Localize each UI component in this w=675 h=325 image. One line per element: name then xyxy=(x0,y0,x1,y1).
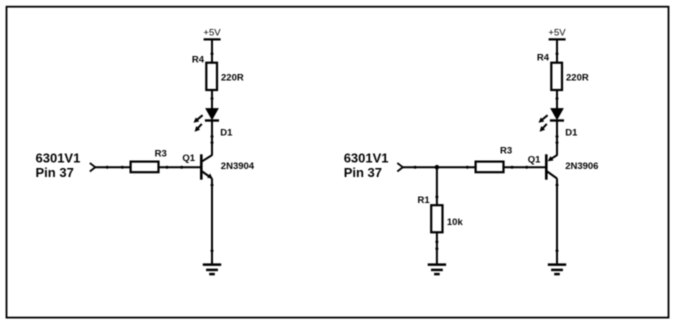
input pin chevron (right) xyxy=(397,163,403,172)
resistor R4 body (right) xyxy=(551,63,562,90)
svg-text:R1: R1 xyxy=(418,195,431,206)
wire R3 to Q1 base (left) xyxy=(159,166,201,168)
svg-text:+5V: +5V xyxy=(548,28,566,39)
LED D1 label (left) xyxy=(220,127,233,138)
power +5V label (left) xyxy=(203,28,221,39)
svg-text:R3: R3 xyxy=(500,146,512,157)
resistor R1 body xyxy=(431,205,442,232)
LED D1 anode triangle (right) xyxy=(551,109,563,120)
svg-text:D1: D1 xyxy=(220,127,233,138)
LED light ray arrow 1 (left) xyxy=(194,115,203,123)
svg-text:+5V: +5V xyxy=(203,28,221,39)
wire input to junction to R3 (right) xyxy=(403,166,476,168)
ground (left) xyxy=(203,265,221,275)
svg-text:220R: 220R xyxy=(566,73,589,84)
svg-text:Q1: Q1 xyxy=(182,153,195,164)
pin dots vertical chain (left) xyxy=(211,52,214,252)
wire D1 to Q1 emitter (right) xyxy=(556,121,558,156)
LED D1 label (right) xyxy=(565,127,578,138)
LED light ray arrow 2 (right) xyxy=(540,124,547,132)
resistor R3 label (left) xyxy=(155,149,167,160)
value label 220R (left) xyxy=(221,73,244,84)
ground (under R1) xyxy=(428,265,446,275)
type label 2N3904 (left) xyxy=(221,161,255,172)
LED D1 cathode bar (left) xyxy=(205,119,219,121)
pin dots base wire (right) xyxy=(414,166,529,169)
svg-text:220R: 220R xyxy=(221,73,244,84)
svg-text:10k: 10k xyxy=(447,217,464,228)
LED light ray arrow 2 (left) xyxy=(195,124,202,132)
resistor R1 label xyxy=(418,195,431,206)
svg-text:R4: R4 xyxy=(192,55,205,66)
svg-text:6301V1: 6301V1 xyxy=(344,150,389,165)
resistor R3 label (right) xyxy=(500,146,512,157)
transistor Q1 label (right) xyxy=(528,154,541,165)
wire +5V to R4 (right) xyxy=(556,39,558,63)
svg-text:2N3904: 2N3904 xyxy=(221,161,255,172)
svg-text:Pin 37: Pin 37 xyxy=(36,165,74,180)
wire R3 to Q1 base (right) xyxy=(504,166,546,168)
value label 10k xyxy=(447,217,464,228)
net label 6301V1 Pin 37 (right) xyxy=(344,150,389,180)
power rail bar +5V (left) xyxy=(204,38,221,40)
resistor R4 label (left) xyxy=(192,55,205,66)
wire D1 to Q1 collector (left) xyxy=(211,121,213,156)
LED D1 cathode bar (right) xyxy=(550,119,564,121)
resistor R4 label (right) xyxy=(537,53,550,64)
pin dots R1 branch (right) xyxy=(435,195,438,250)
transistor Q1 label (left) xyxy=(182,153,195,164)
type label 2N3906 (right) xyxy=(565,161,598,172)
pin dots vertical chain (right) xyxy=(556,52,559,252)
wire R4 to D1 (left) xyxy=(211,90,213,109)
resistor R4 body (left) xyxy=(206,63,217,90)
wire input to R3 (left) xyxy=(95,166,130,168)
pin dots base wire (left) xyxy=(106,166,184,169)
LED light ray arrow 1 (right) xyxy=(539,115,548,123)
wire Q1 collector to ground (right) xyxy=(556,178,558,264)
LED D1 anode triangle (left) xyxy=(206,109,218,120)
power rail bar +5V (right) xyxy=(549,38,566,40)
resistor R3 body (left) xyxy=(131,162,159,173)
svg-text:R3: R3 xyxy=(155,149,167,160)
value label 220R (right) xyxy=(566,73,589,84)
wire +5V to R4 (left) xyxy=(211,39,213,63)
transistor Q1 2N3906 PNP (right) xyxy=(546,154,557,179)
resistor R3 body (right) xyxy=(476,162,504,173)
junction node base/R1 (right) xyxy=(435,165,440,170)
ground (right transistor) xyxy=(548,265,566,275)
svg-text:R4: R4 xyxy=(537,53,550,64)
power +5V label (right) xyxy=(548,28,566,39)
input pin chevron (left) xyxy=(90,163,96,172)
svg-text:Pin 37: Pin 37 xyxy=(344,165,382,180)
transistor Q1 2N3904 NPN (left) xyxy=(201,154,212,179)
svg-text:Q1: Q1 xyxy=(528,154,541,165)
wire junction to R1 (right) xyxy=(436,167,438,205)
wire Q1 emitter to ground (left) xyxy=(211,178,213,264)
net label 6301V1 Pin 37 (left) xyxy=(36,150,81,180)
svg-text:D1: D1 xyxy=(565,127,578,138)
svg-text:2N3906: 2N3906 xyxy=(565,161,598,172)
svg-text:6301V1: 6301V1 xyxy=(36,150,81,165)
wire R4 to D1 (right) xyxy=(556,90,558,109)
wire R1 to ground xyxy=(436,232,438,264)
